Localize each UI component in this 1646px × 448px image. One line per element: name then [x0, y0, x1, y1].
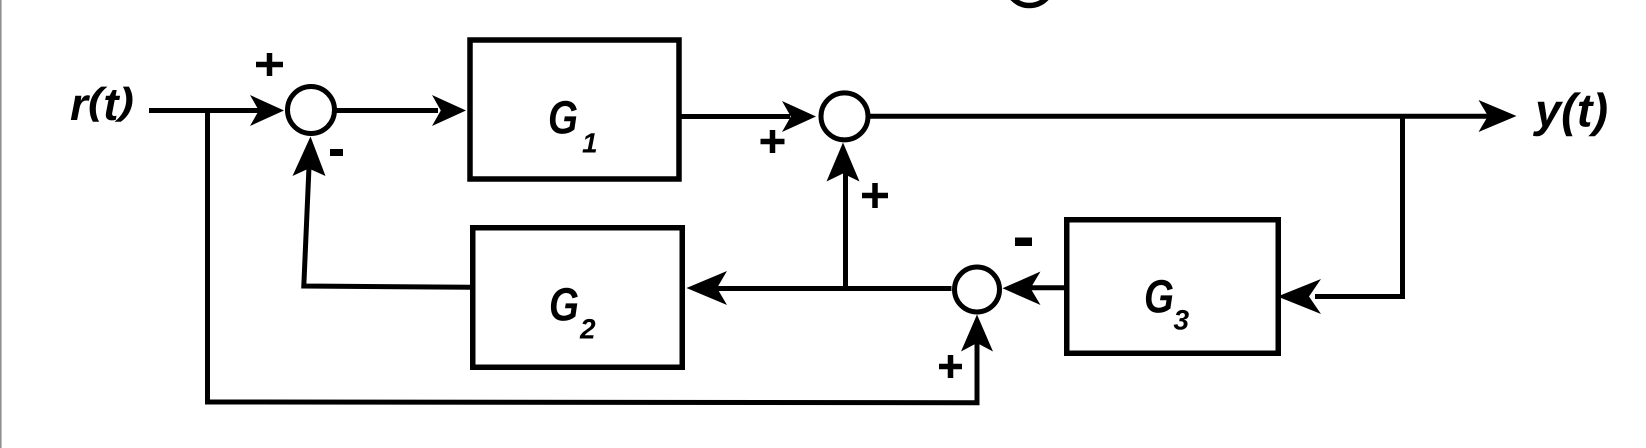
- plus sign at S2 bottom input: [862, 183, 888, 208]
- wire S1 to G1: [336, 108, 438, 113]
- summing junction S3: [955, 267, 1000, 312]
- block G1: [470, 40, 679, 179]
- partial circle (cropped annotation above figure): [1006, 0, 1053, 6]
- arrowhead into G1: [432, 95, 466, 126]
- arrowhead into S3 right input: [1003, 272, 1041, 306]
- page edge line: [0, 0, 2, 448]
- plus sign at S1 input: [256, 53, 283, 76]
- label r(t): [71, 87, 133, 122]
- block G2: [473, 228, 683, 368]
- wire S2 to y(t) output: [870, 114, 1500, 119]
- wire r(t) to summing junction S1: [149, 108, 262, 113]
- label y(t): [1533, 92, 1607, 136]
- wire r(t) tap down along bottom into S3 bottom: [208, 111, 978, 403]
- summing junction S2: [821, 93, 868, 140]
- arrowhead into S1: [250, 95, 284, 126]
- arrowhead up into S1 bottom: [293, 137, 326, 177]
- arrowhead into G2: [687, 271, 728, 305]
- label G2: [551, 288, 578, 321]
- minus sign at S1 feedback input: [330, 149, 343, 156]
- wire tap up into S2 bottom: [843, 160, 848, 289]
- wire output tap down and left into G3: [1315, 116, 1403, 297]
- label G3: [1146, 280, 1173, 313]
- arrowhead up into S2 bottom: [827, 143, 860, 182]
- wire G2 to S1 bottom: [304, 160, 471, 287]
- minus sign at S3 right input: [1015, 238, 1032, 247]
- plus sign at S3 bottom input: [939, 355, 962, 378]
- plus sign at S2 left input: [761, 130, 785, 153]
- block G3: [1067, 220, 1279, 354]
- arrowhead up into S3 bottom: [961, 315, 993, 352]
- wire G3 to summing junction S3: [1030, 285, 1066, 290]
- arrowhead into S2: [782, 101, 816, 132]
- wire S3 to G2 (with tap to S2): [710, 286, 952, 291]
- label G1: [550, 101, 577, 134]
- arrowhead at y(t): [1479, 100, 1517, 132]
- arrowhead into G3: [1278, 279, 1322, 314]
- wire G1 to summing junction S2: [681, 114, 790, 119]
- summing junction S1: [288, 87, 335, 134]
